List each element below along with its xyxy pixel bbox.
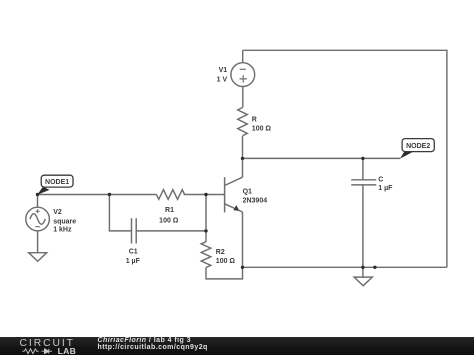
svg-text:100 Ω: 100 Ω: [216, 258, 236, 265]
wire: capacitor C column bottom: [362, 185, 364, 267]
wire: R2 bottom loop to emitter node: [206, 267, 243, 279]
junction dot: collector node: [241, 157, 244, 160]
svg-text:2N3904: 2N3904: [243, 198, 268, 205]
svg-text:V2: V2: [53, 209, 62, 216]
label C1 "C1 / 1 µF": [126, 249, 141, 266]
label R "R / 100 Ω": [252, 117, 272, 133]
label R2 "R2 / 100 Ω": [216, 249, 236, 265]
wire: bottom ground rail from emitter node to right corner: [243, 266, 447, 268]
wire: capacitor C column top: [362, 158, 364, 179]
wire: C1 right plate to mid column: [136, 230, 206, 232]
svg-text:R2: R2: [216, 249, 225, 256]
junction dot: base rail / mid column: [204, 193, 207, 196]
label C "C / 1 µF": [378, 176, 393, 192]
footer caption text: [98, 335, 208, 352]
ground symbol bottom right: [354, 267, 372, 285]
junction dot: C1 right / mid column: [204, 229, 207, 232]
junction dot: NODE2 rail / capacitor C top: [361, 157, 364, 160]
wire: mid column from base rail to R2 top: [205, 195, 207, 242]
svg-text:1 kHz: 1 kHz: [53, 227, 72, 234]
junction dot: ground rail attach: [373, 266, 376, 269]
footer bar: [0, 337, 474, 355]
svg-text:C: C: [378, 176, 383, 183]
junction dot: base rail / C1 drop: [108, 193, 111, 196]
wire: top rail from V1 to right side down to bottom-right corner: [243, 50, 447, 267]
label Q1 "Q1 / 2N3904": [243, 188, 268, 204]
wire: emitter lead down to ground rail: [242, 212, 244, 267]
svg-text:NODE1: NODE1: [45, 179, 69, 186]
ground symbol below V2: [29, 253, 47, 262]
capacitor C: [351, 180, 376, 185]
capacitor C1: [132, 218, 137, 243]
junction dot: NODE1 net at V2 top: [36, 193, 39, 196]
wire: collector node horizontal to NODE2 flag: [243, 157, 401, 159]
svg-text:V1: V1: [219, 67, 228, 74]
label V1 "V1 / 1 V": [217, 67, 228, 83]
resistor R2: [201, 242, 211, 268]
svg-text:1 V: 1 V: [217, 77, 228, 84]
resistor R: [238, 108, 248, 159]
transistor Q1 (2N3904 NPN): [225, 177, 243, 212]
wire: collector lead from node down to Q1: [242, 158, 244, 177]
svg-text:NODE2: NODE2: [406, 143, 430, 150]
svg-text:100 Ω: 100 Ω: [252, 126, 272, 133]
svg-text:1 µF: 1 µF: [378, 185, 393, 192]
voltage source V2 (square 1 kHz): [26, 195, 50, 253]
svg-text:100 Ω: 100 Ω: [159, 218, 179, 225]
svg-text:C1: C1: [129, 249, 138, 256]
resistor R1: [156, 190, 184, 200]
wire: base rail from V2 node to Q1 base: [38, 194, 225, 196]
svg-text:R: R: [252, 117, 257, 124]
svg-text:Q1: Q1: [243, 188, 252, 195]
node flag NODE1: [37, 175, 73, 195]
svg-text:1 µF: 1 µF: [126, 258, 141, 265]
label R1 "R1 / 100 Ω": [159, 207, 179, 225]
node flag NODE2: [400, 139, 434, 159]
wire: drop from base rail to C1 left plate: [109, 195, 131, 231]
voltage source V1: [231, 50, 255, 107]
svg-text:LAB: LAB: [58, 346, 77, 355]
svg-text:square: square: [53, 218, 76, 225]
CircuitLab logo: [20, 338, 77, 356]
junction dot: emitter / ground rail: [241, 266, 244, 269]
junction dot: ground rail / capacitor C bottom: [361, 266, 364, 269]
label V2 "V2 / square / 1 kHz": [53, 209, 76, 234]
svg-text:R1: R1: [165, 207, 174, 214]
